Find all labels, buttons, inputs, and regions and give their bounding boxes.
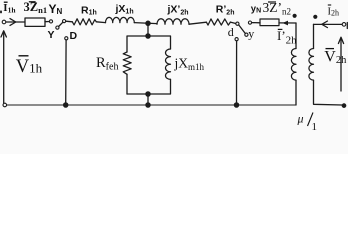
node output of switch [248,21,251,24]
wire shunt stem top [147,23,149,36]
switch blade to y contact [239,25,246,34]
terminal bottom-left [3,103,7,107]
wire [45,21,50,23]
node bottom of magnetizing branch [146,92,150,96]
label 3Z'n2 [263,0,292,17]
label I2h [328,5,340,18]
contact D [65,37,68,40]
terminal top-left [2,20,6,24]
wire [189,22,206,24]
voltage arrow V1h [3,32,5,104]
wire from D down to bottom rail [65,40,67,105]
wire [134,23,157,24]
node rail at D wire [64,103,68,107]
current arrow I1h [10,19,16,26]
svg-text:1: 1 [312,121,318,133]
polarity dot secondary [313,15,317,19]
inductor jXm1h (vertical) [166,49,171,79]
switch blade Y contact [56,26,59,29]
svg-text:I2h: I2h [328,7,340,18]
svg-text:I1h: I1h [3,2,16,15]
label V2h [324,49,347,67]
terminal bottom-right [342,104,346,108]
secondary winding of ideal transformer [313,24,315,48]
wire from d down to bottom rail [236,41,238,105]
label 3Zn1 [24,0,48,15]
contact y [245,33,248,36]
switch pivot node [63,20,66,23]
label V1h [16,56,43,77]
svg-text:d: d [228,25,234,39]
node junction on top wire [146,21,150,25]
node top of magnetizing branch [146,34,150,38]
svg-text:D: D [70,30,78,42]
wire [279,22,296,24]
wire [6,21,25,23]
wire [66,20,73,23]
node on bottom rail below shunt [146,103,150,107]
svg-text:3Z’n2: 3Z’n2 [263,0,292,17]
scan speck at left edge [0,11,2,14]
terminal top-right [342,23,346,27]
resistor R'2h [206,19,230,25]
svg-text:V2h: V2h [324,49,347,67]
label I1h [3,2,16,15]
svg-text:jX1h: jX1h [115,3,134,15]
svg-text:y: y [248,27,254,41]
wire frame top of parallel branch [127,36,171,52]
wire [252,22,260,24]
inductor jX'2h [157,19,189,24]
svg-text:Y: Y [48,29,55,41]
svg-text:Rfeh: Rfeh [96,55,118,73]
impedance box 3Z'n2 [260,19,279,26]
svg-text:μ: μ [297,112,304,126]
voltage arrow V2h [340,38,342,91]
impedance box 3Zn1 [25,18,45,26]
wire [96,21,105,24]
label I'2h [277,28,297,47]
label mu/1 ratio [297,112,318,134]
edge tick at right border [346,23,348,29]
resistor Rfeh (vertical) [123,52,131,74]
current arrow I2h (open, pointing left) [322,21,328,28]
contact d [235,38,238,41]
svg-text:I’2h: I’2h [277,28,297,47]
bottom rail [7,104,296,106]
svg-text:V1h: V1h [16,57,43,77]
wire secondary top to terminal [314,23,343,25]
wire [230,22,235,23]
node contact circle after box [49,20,52,23]
switch node end of line [236,22,239,25]
svg-text:R1h: R1h [81,4,97,16]
svg-text:YN: YN [49,2,63,16]
wire [126,74,128,94]
switch blade [59,22,63,26]
current arrow I'2h (filled, pointing left) [282,21,288,26]
svg-text:jX’2h: jX’2h [167,4,189,17]
svg-text:yN: yN [251,4,261,15]
inductor jX1h [106,17,135,22]
svg-text:R’2h: R’2h [216,4,235,17]
polarity dot primary [293,14,297,18]
wire shunt stem bottom [147,94,149,105]
wire frame bottom of parallel branch [127,79,171,94]
resistor R1h [72,19,96,25]
node rail at d wire [234,103,238,107]
svg-text:jXm1h: jXm1h [174,56,205,73]
primary winding of ideal transformer [295,23,297,49]
